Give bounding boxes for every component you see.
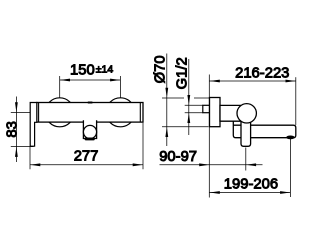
svg-text:199-206: 199-206 xyxy=(224,177,278,193)
wall plane line xyxy=(208,75,210,198)
lever stem side xyxy=(241,118,251,146)
dim O70 arrow top xyxy=(165,88,168,98)
lever foot bar xyxy=(85,138,95,141)
dim 83 arrow bottom xyxy=(15,147,18,157)
dim 83 ext top xyxy=(11,112,30,114)
dim G1/2 arrow bottom xyxy=(187,113,190,123)
dim O70 ext bottom xyxy=(162,126,209,128)
dim 199-206 ext right xyxy=(289,139,291,197)
dim 277 ext left xyxy=(29,146,31,169)
body bar xyxy=(37,103,143,123)
dim 90-97 lever ext xyxy=(245,148,247,171)
svg-text:G1/2: G1/2 xyxy=(175,57,191,89)
aerator xyxy=(286,136,294,140)
dim 90-97 arrow at lever xyxy=(246,163,256,166)
cartridge circle xyxy=(237,104,256,123)
svg-text:277: 277 xyxy=(74,149,99,165)
body side xyxy=(220,105,242,121)
escutcheon side xyxy=(210,98,221,127)
svg-text:±14: ±14 xyxy=(96,64,114,76)
dim O70 ext top xyxy=(162,97,184,99)
wall bracket plate xyxy=(30,103,37,147)
dim 150 ext line right xyxy=(119,76,121,98)
dim O70 line xyxy=(166,54,168,147)
dim 277 ext right xyxy=(142,123,144,170)
dim 83 arrow top xyxy=(15,102,18,112)
escutcheon circle left xyxy=(45,98,74,127)
dim G1/2 line xyxy=(188,59,190,135)
escutcheon circle right xyxy=(106,98,135,127)
svg-text:216-223: 216-223 xyxy=(235,65,289,81)
lever knob circle xyxy=(83,125,96,138)
dim 150 ext line left xyxy=(59,76,61,98)
svg-text:90-97: 90-97 xyxy=(159,149,197,165)
lever stem front xyxy=(83,120,96,138)
dim 90-97 line xyxy=(160,164,263,166)
dim 90-97 arrow at wall xyxy=(199,163,209,166)
dim 216-223 arrow left xyxy=(210,80,220,83)
dim 277 arrow left xyxy=(30,163,40,166)
dim 216-223 ext right xyxy=(295,77,297,125)
dim 150 line xyxy=(60,79,121,81)
dim O70 arrow bottom xyxy=(165,127,168,137)
dim 199-206 arrow right xyxy=(280,191,290,194)
dim 216-223 line xyxy=(210,80,296,82)
dim 216-223 arrow right xyxy=(286,80,296,83)
dim 83 line xyxy=(15,97,17,163)
body left cap line xyxy=(38,103,40,123)
dim 199-206 line xyxy=(210,192,291,194)
svg-text:150: 150 xyxy=(70,63,95,79)
dim 277 arrow right xyxy=(133,163,143,166)
svg-text:83: 83 xyxy=(4,121,20,137)
dim 199-206 arrow left xyxy=(210,191,220,194)
G1/2 nipple xyxy=(203,105,210,112)
spout xyxy=(233,121,295,138)
dim 83 ext bottom xyxy=(11,146,34,148)
diverter tick on body top xyxy=(88,102,93,104)
dim O70 ext top right segment xyxy=(194,97,210,99)
dim G1/2 ext bottom xyxy=(185,112,203,114)
dim G1/2 arrow top xyxy=(187,95,190,105)
dim 150 arrow right xyxy=(110,79,120,82)
dim G1/2 ext top xyxy=(185,104,203,106)
body right cap line xyxy=(139,103,141,123)
svg-text:Ø70: Ø70 xyxy=(153,55,169,83)
dim 277 line xyxy=(30,164,143,166)
dim 150 arrow left xyxy=(60,79,70,82)
